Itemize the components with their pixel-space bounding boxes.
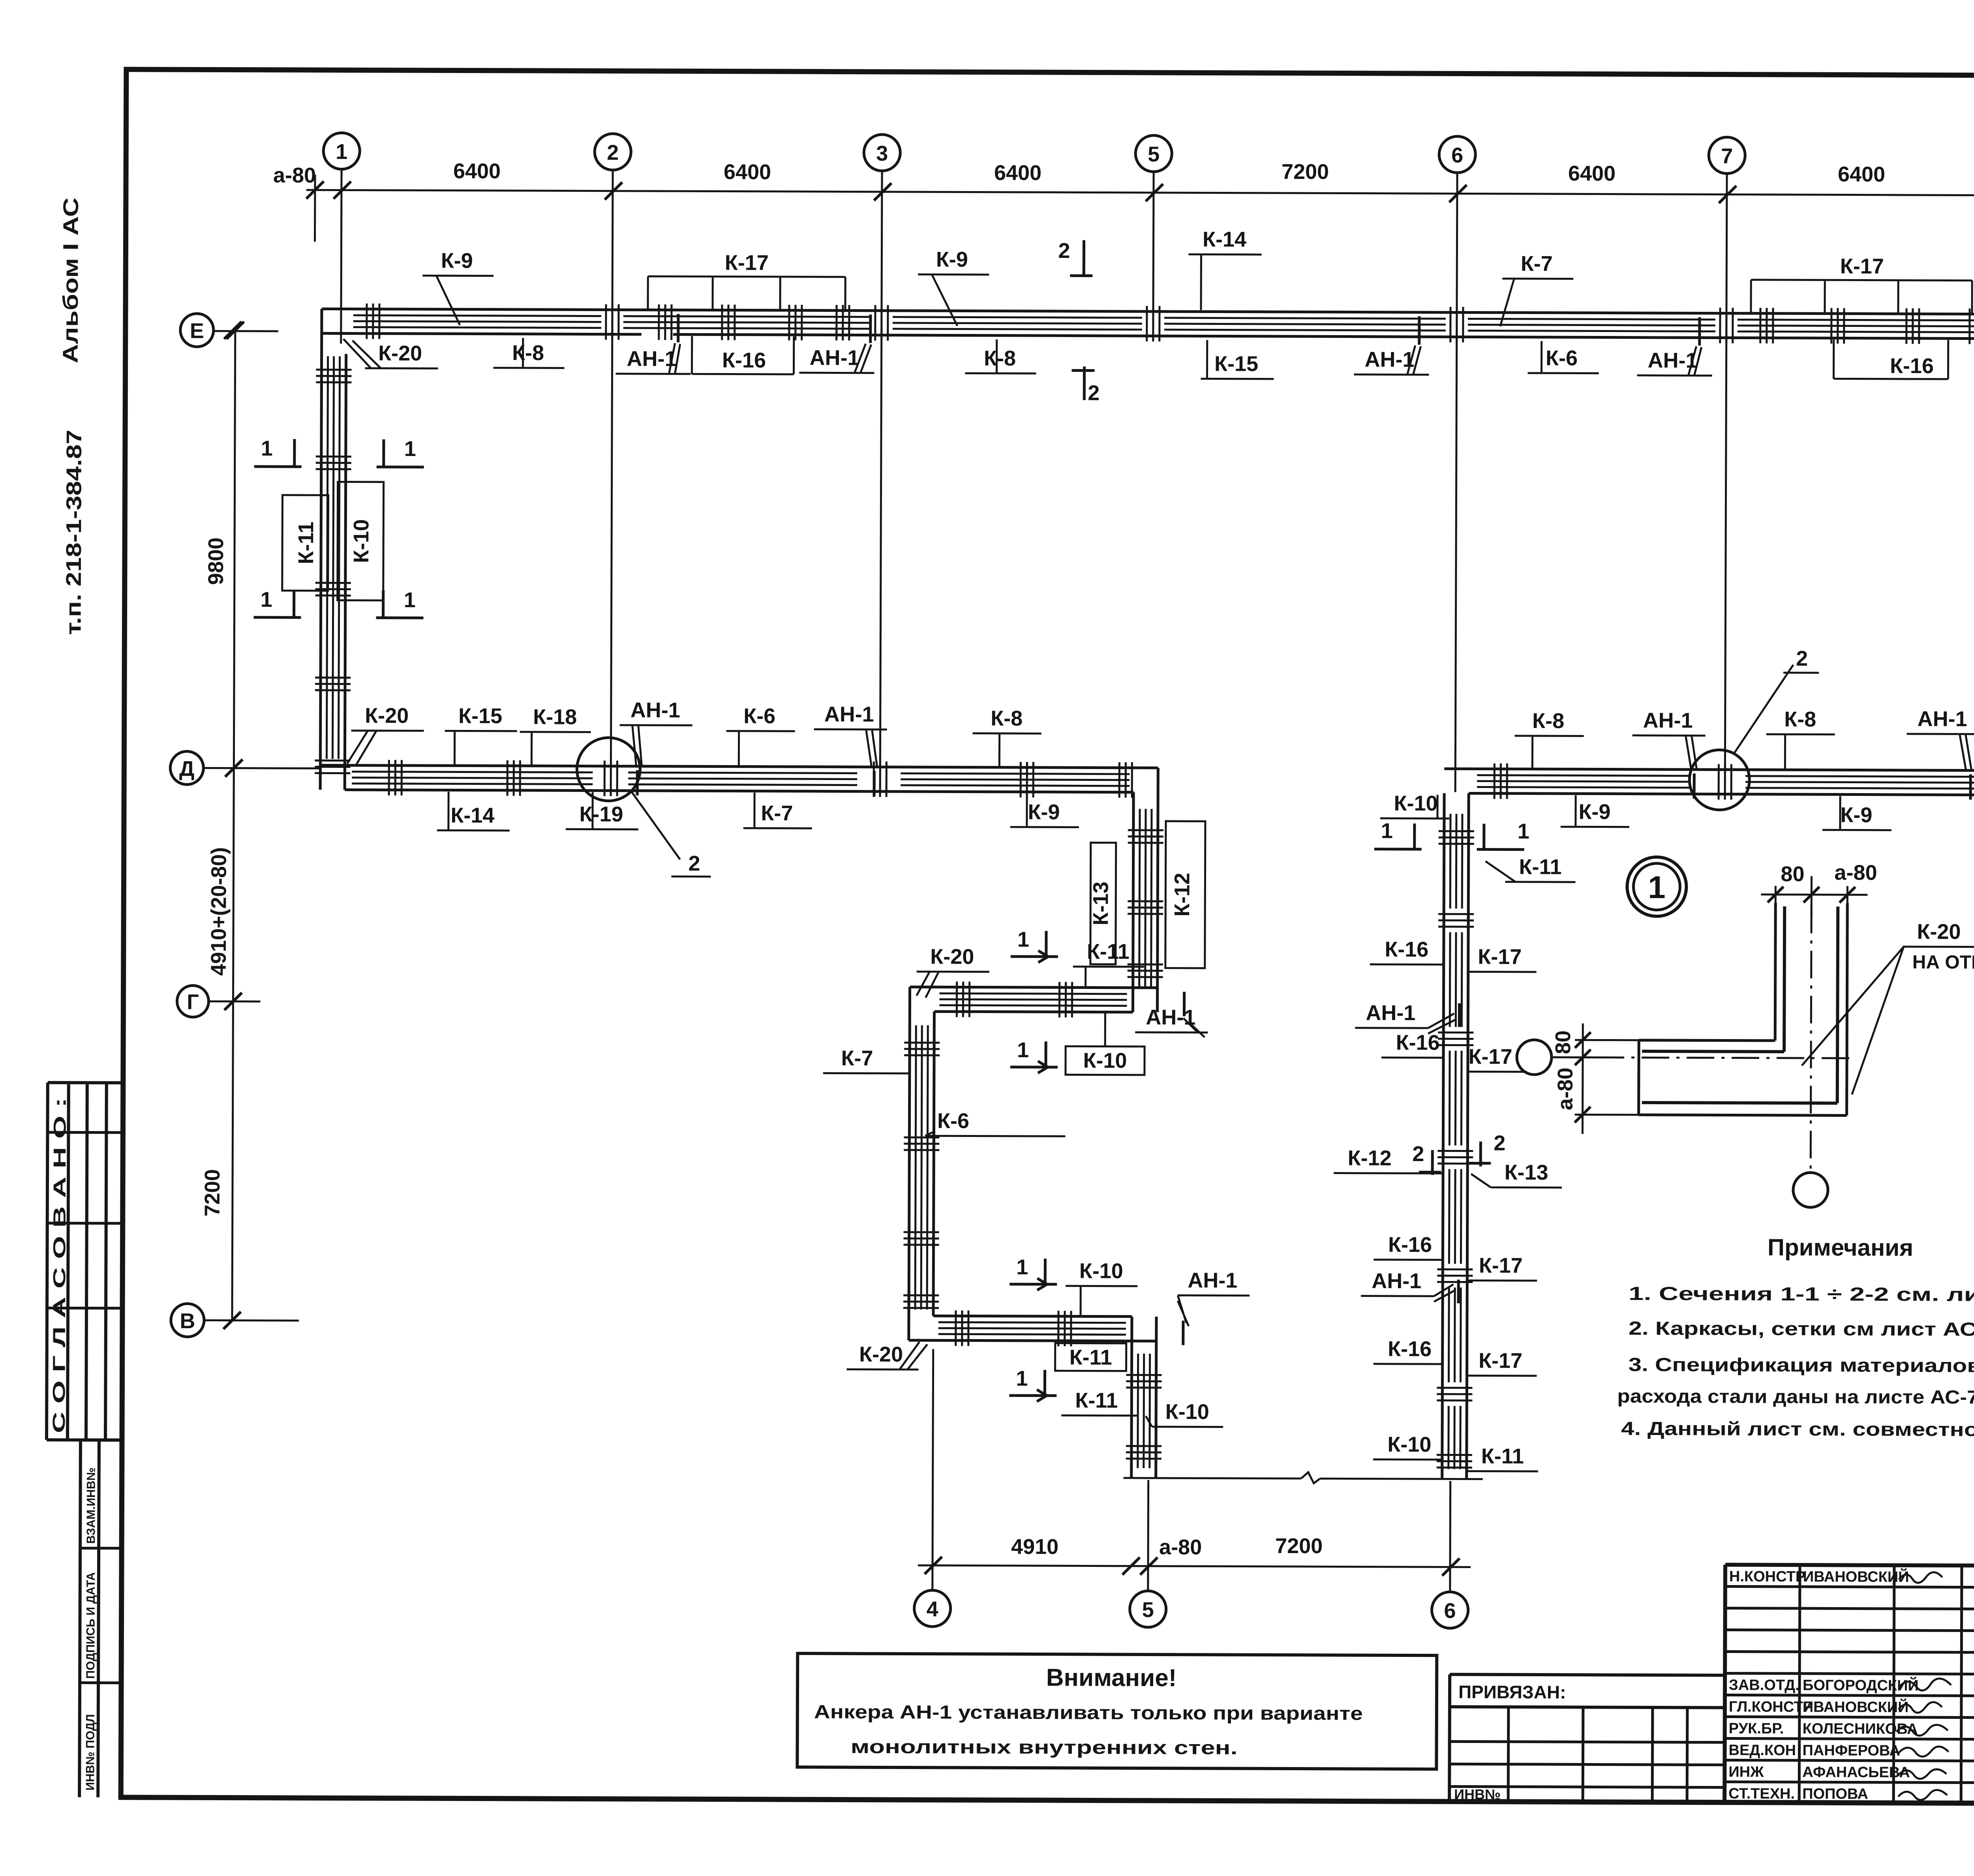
svg-text:К-17: К-17 (1479, 1254, 1523, 1278)
svg-text:2: 2 (688, 852, 700, 875)
svg-text:80: 80 (1551, 1030, 1575, 1054)
svg-text:5: 5 (1148, 143, 1160, 166)
stamp box ИНВ/ПОДПИСЬ (79, 1440, 122, 1797)
svg-text:АН-1: АН-1 (1146, 1006, 1195, 1029)
wall block jog top faces (910, 987, 1157, 1012)
svg-text:1: 1 (404, 437, 416, 461)
detail 1 centerline horizontal (1552, 1057, 1855, 1058)
svg-text:2. Каркасы, сетки см лист: 2. Каркасы, сетки см лист АС-42; АС-43. (1629, 1318, 1974, 1341)
svg-text:а-80: а-80 (1554, 1067, 1577, 1110)
row circle Г (177, 985, 208, 1017)
svg-text:1: 1 (1518, 820, 1529, 843)
anchor marks АН-1 (636, 314, 1972, 1348)
wall block B left faces (909, 987, 934, 1340)
svg-text:ИНВ№: ИНВ№ (1454, 1786, 1501, 1802)
svg-text:К-17: К-17 (1840, 254, 1884, 278)
svg-text:Г: Г (187, 990, 199, 1014)
svg-text:К-20: К-20 (365, 704, 409, 728)
grid circle 5 bottom (1130, 1591, 1166, 1627)
svg-text:К-12: К-12 (1170, 873, 1194, 917)
svg-text:К-12: К-12 (1348, 1146, 1392, 1170)
svg-text:2: 2 (1796, 647, 1808, 670)
leader to label 2 right (1734, 665, 1819, 754)
svg-text:К-7: К-7 (841, 1046, 873, 1070)
svg-text:2: 2 (1412, 1142, 1424, 1166)
grid circle 5 (1135, 135, 1172, 172)
svg-text:АН-1: АН-1 (1188, 1268, 1237, 1292)
signature table grid (1724, 1565, 1974, 1803)
svg-text:АН-1: АН-1 (824, 702, 874, 726)
svg-text:К-6: К-6 (937, 1109, 969, 1133)
svg-text:Альбом I АС: Альбом I АС (59, 197, 83, 363)
bottom dimension line (918, 1565, 1471, 1567)
wall row Д right rebar ticks (1494, 764, 1507, 799)
axis line 6 (1450, 173, 1457, 1592)
svg-text:1: 1 (261, 588, 272, 612)
svg-text:1: 1 (261, 437, 273, 460)
svg-text:К-7: К-7 (761, 801, 793, 825)
svg-text:К-13: К-13 (1505, 1161, 1548, 1184)
svg-text:4. Данный лист см. совмест: 4. Данный лист см. совместно с листом Ае… (1621, 1418, 1974, 1441)
svg-text:К-16: К-16 (722, 349, 766, 372)
wall row Д left rebar ticks (389, 760, 402, 795)
grid circle 3 (864, 135, 900, 171)
detail 1 axis circle left (1517, 1040, 1552, 1075)
svg-text:4: 4 (927, 1597, 938, 1621)
row circle Д (170, 751, 203, 784)
svg-text:К-10: К-10 (1165, 1400, 1209, 1424)
svg-text:К-17: К-17 (725, 251, 769, 275)
signature squiggles (1896, 1572, 1951, 1800)
grid circle 4 bottom (914, 1590, 951, 1626)
detail 1 axis circle bottom (1793, 1172, 1828, 1207)
wall row Е rebar lines (353, 315, 1974, 333)
label К-10 block a (1066, 1046, 1145, 1075)
svg-text:7200: 7200 (1282, 160, 1329, 184)
svg-text:К-20: К-20 (378, 341, 422, 365)
svg-text:К-9: К-9 (936, 248, 968, 271)
wall column5 lower stub faces (1131, 1341, 1156, 1478)
dimension ticks top (306, 181, 1974, 205)
svg-text:СТ.ТЕХН.: СТ.ТЕХН. (1728, 1786, 1795, 1803)
grid circle 1 (323, 133, 360, 169)
svg-text:К-11: К-11 (1075, 1388, 1118, 1412)
grid circle 7 (1709, 137, 1745, 173)
svg-text:80: 80 (1781, 862, 1804, 886)
svg-text:1: 1 (336, 140, 347, 163)
svg-text:ПАНФЕРОВА: ПАНФЕРОВА (1802, 1742, 1900, 1759)
svg-text:АФАНАСЬЕВА: АФАНАСЬЕВА (1802, 1764, 1910, 1781)
svg-text:К-10: К-10 (349, 519, 373, 563)
wall left rebar ticks (316, 370, 351, 382)
Внимание warning box (797, 1653, 1437, 1769)
svg-text:Анкера АН-1 устанавливать: Анкера АН-1 устанавливать только при вар… (814, 1702, 1363, 1724)
svg-text:АН-1: АН-1 (1365, 348, 1415, 371)
svg-text:3. Спецификация материалов и: 3. Спецификация материалов и ведомость (1629, 1354, 1974, 1377)
svg-text:К-20: К-20 (1917, 920, 1961, 944)
wall row Д left faces (320, 765, 1158, 792)
svg-text:ЗАВ.ОТД.: ЗАВ.ОТД. (1729, 1677, 1799, 1694)
extension line a-80 left (314, 174, 316, 242)
wall row Д right rebar lines (1477, 775, 1974, 790)
svg-text:К-7: К-7 (1521, 252, 1553, 276)
wall block B bottom faces (909, 1316, 1156, 1341)
svg-text:ГЛ.КОНСТР: ГЛ.КОНСТР (1729, 1699, 1813, 1716)
svg-text:К-8: К-8 (991, 707, 1023, 730)
svg-text:1: 1 (1017, 1038, 1029, 1062)
wall block B left rebar (915, 1025, 928, 1309)
axis line 1 (341, 169, 342, 344)
svg-text:2: 2 (1494, 1131, 1505, 1155)
grid circle 2 (595, 134, 631, 170)
wall column5 upper stub faces (1133, 768, 1158, 988)
svg-text:К-10: К-10 (1394, 792, 1437, 815)
svg-text:АН-1: АН-1 (630, 698, 680, 722)
row circle Е (180, 313, 214, 347)
wall row Е faces (322, 309, 1974, 340)
row axis Г stub (208, 1000, 260, 1002)
svg-text:К-15: К-15 (458, 704, 502, 728)
svg-text:ПОДПИСЬ И ДАТА: ПОДПИСЬ И ДАТА (84, 1572, 98, 1679)
svg-text:2: 2 (1088, 381, 1100, 405)
axis line 4 bottom (933, 1349, 933, 1590)
svg-text:ВЗАМ.ИНВ№: ВЗАМ.ИНВ№ (84, 1467, 98, 1544)
svg-text:К-20: К-20 (930, 945, 974, 968)
svg-text:7200: 7200 (1275, 1534, 1323, 1558)
svg-text:АН-1: АН-1 (1372, 1269, 1421, 1293)
detail 1 left dim line (1574, 1023, 1642, 1134)
svg-text:К-11: К-11 (294, 522, 318, 564)
svg-text:АН-1: АН-1 (1366, 1001, 1415, 1025)
svg-text:6: 6 (1444, 1599, 1456, 1623)
svg-text:К-16: К-16 (1396, 1031, 1440, 1054)
svg-text:К-11: К-11 (1481, 1445, 1524, 1468)
left dimension line (232, 330, 235, 1321)
svg-text:АН-1: АН-1 (627, 347, 676, 371)
svg-text:К-11: К-11 (1519, 855, 1561, 879)
svg-text:ИНВ№ ПОДЛ: ИНВ№ ПОДЛ (84, 1714, 97, 1791)
svg-text:3: 3 (876, 142, 888, 165)
ground line under block (1124, 1472, 1483, 1484)
svg-text:1: 1 (1648, 870, 1666, 905)
axis line 2 (611, 170, 613, 767)
wall column5 lower stub rebar (1138, 1354, 1150, 1468)
svg-text:Примечания: Примечания (1768, 1234, 1913, 1261)
svg-text:С О Г Л А С О В А Н О :: С О Г Л А С О В А Н О : (49, 1097, 70, 1433)
svg-text:ВЕД.КОН: ВЕД.КОН (1728, 1742, 1796, 1759)
label К-11 box left wall (282, 495, 328, 591)
svg-text:а-80: а-80 (1834, 861, 1877, 884)
svg-text:т.п. 218-1-384.87: т.п. 218-1-384.87 (62, 430, 86, 635)
svg-text:НА ОТМ. 0.500: НА ОТМ. 0.500 (1912, 952, 1974, 973)
svg-text:1: 1 (1381, 819, 1393, 843)
svg-text:ИВАНОВСКИЙ: ИВАНОВСКИЙ (1803, 1567, 1909, 1585)
svg-text:К-14: К-14 (450, 803, 494, 827)
detail 1 centerline vertical (1811, 906, 1811, 1172)
dimension ticks bottom (925, 1557, 1460, 1576)
svg-text:К-15: К-15 (1214, 352, 1258, 375)
svg-text:6400: 6400 (1568, 161, 1616, 185)
row axis В stub (204, 1319, 299, 1322)
svg-text:1: 1 (1016, 1367, 1028, 1390)
svg-text:К-6: К-6 (743, 704, 775, 728)
svg-text:6400: 6400 (724, 160, 771, 184)
svg-text:К-6: К-6 (1546, 346, 1578, 370)
svg-text:ИНЖ: ИНЖ (1728, 1764, 1764, 1780)
svg-text:6: 6 (1451, 143, 1463, 167)
ПРИВЯЗАН table (1449, 1674, 1725, 1802)
label К-11 block b (1055, 1343, 1126, 1371)
svg-text:К-8: К-8 (984, 347, 1016, 370)
label К-10 box left wall (338, 482, 384, 600)
svg-text:ПРИВЯЗАН:: ПРИВЯЗАН: (1458, 1681, 1566, 1702)
svg-text:Внимание!: Внимание! (1046, 1664, 1177, 1692)
svg-text:К-16: К-16 (1890, 354, 1934, 378)
svg-text:К-11: К-11 (1070, 1345, 1112, 1369)
callout circle detail 2 on row Д right (1689, 750, 1749, 810)
svg-text:К-17: К-17 (1478, 945, 1522, 969)
svg-text:1. Сечения 1-1 ÷ 2-2 см.: 1. Сечения 1-1 ÷ 2-2 см. лист АС-18 (1629, 1283, 1974, 1306)
svg-text:К-9: К-9 (1840, 803, 1872, 827)
svg-text:В: В (180, 1309, 195, 1333)
svg-text:6400: 6400 (994, 161, 1041, 185)
wall column5 upper stub rebar (1139, 809, 1152, 987)
detail 1 title circle (1627, 857, 1686, 916)
svg-text:РУК.БР.: РУК.БР. (1729, 1720, 1784, 1737)
svg-text:6400: 6400 (453, 159, 501, 183)
leader to label 2 (631, 792, 711, 877)
svg-text:К-9: К-9 (1578, 800, 1610, 824)
top dimension line (306, 190, 1974, 196)
svg-text:4910: 4910 (1011, 1535, 1058, 1559)
row circle В (171, 1304, 204, 1337)
wall block B bottom rebar (938, 1322, 1126, 1334)
svg-text:5: 5 (1142, 1598, 1154, 1622)
title block outer (1724, 1565, 1974, 1805)
grid circle 6 (1439, 136, 1475, 173)
svg-text:монолитных внутренних сте: монолитных внутренних стен. (850, 1737, 1237, 1759)
wall column6 faces (1442, 793, 1469, 1479)
svg-text:1: 1 (1016, 1255, 1028, 1279)
svg-text:ПОПОВА: ПОПОВА (1802, 1786, 1868, 1803)
svg-text:К-8: К-8 (1784, 707, 1816, 731)
wall row Д left rebar lines (352, 772, 1130, 786)
svg-text:ИВАНОВСКИЙ: ИВАНОВСКИЙ (1803, 1698, 1909, 1716)
wall left rebar lines (326, 356, 340, 759)
svg-text:К-10: К-10 (1079, 1259, 1123, 1283)
svg-text:К-13: К-13 (1089, 882, 1113, 925)
detail 1 corner rebar (1642, 906, 1838, 1103)
axis line 5 (1148, 172, 1154, 1591)
detail 1 wall corner faces (1639, 902, 1848, 1116)
svg-text:К-19: К-19 (579, 802, 623, 826)
wall left column1 faces (320, 309, 346, 790)
svg-text:К-20: К-20 (859, 1343, 903, 1366)
svg-text:К-10: К-10 (1083, 1049, 1127, 1072)
svg-text:2: 2 (1058, 239, 1070, 263)
wall row Д right faces (1444, 769, 1974, 796)
svg-text:4910+(20-80): 4910+(20-80) (207, 847, 231, 976)
svg-text:К-8: К-8 (1532, 709, 1564, 733)
svg-text:9800: 9800 (204, 537, 228, 585)
svg-text:К-11: К-11 (1087, 940, 1130, 963)
svg-text:К-10: К-10 (1387, 1433, 1431, 1456)
label К-13 box col5 stub (1090, 842, 1116, 964)
callout circle detail 2 on row Д left (577, 737, 640, 801)
wall block jog rebar (939, 993, 1127, 1006)
svg-text:К-16: К-16 (1385, 938, 1428, 961)
svg-text:К-8: К-8 (512, 341, 544, 365)
svg-text:К-16: К-16 (1388, 1337, 1432, 1361)
svg-text:а-80: а-80 (273, 163, 316, 187)
row axis Е stub (214, 330, 278, 332)
axis line 3 (880, 171, 882, 768)
svg-text:а-80: а-80 (1159, 1535, 1202, 1559)
row axis Д stub (203, 767, 320, 769)
svg-text:расхода стали даны на лист: расхода стали даны на листе АС-7. (1617, 1386, 1974, 1408)
svg-text:Д: Д (179, 757, 195, 780)
label К-12 box col5 stub (1165, 821, 1205, 968)
svg-text:АН-1: АН-1 (1643, 709, 1693, 732)
svg-text:К-9: К-9 (1028, 800, 1060, 824)
svg-text:К-17: К-17 (1468, 1045, 1512, 1068)
svg-text:К-9: К-9 (441, 249, 473, 272)
grid circle 6 bottom (1432, 1592, 1468, 1628)
svg-text:7: 7 (1721, 144, 1733, 168)
svg-text:АН-1: АН-1 (1918, 707, 1967, 731)
wall column6 rebar lines (1449, 814, 1462, 1469)
svg-text:7200: 7200 (201, 1169, 224, 1216)
svg-text:Е: Е (190, 319, 204, 343)
svg-text:АН-1: АН-1 (810, 346, 859, 370)
wall column6 rebar ticks (1439, 831, 1474, 844)
svg-text:6400: 6400 (1838, 162, 1885, 186)
axis line 7 (1725, 174, 1727, 771)
svg-text:К-17: К-17 (1479, 1349, 1522, 1373)
svg-text:Н.КОНСТР: Н.КОНСТР (1729, 1568, 1805, 1585)
svg-text:1: 1 (1017, 928, 1029, 951)
detail 1 top dim line (1761, 876, 1867, 938)
left dim ticks (223, 322, 244, 1329)
svg-text:2: 2 (607, 141, 619, 165)
svg-text:К-18: К-18 (533, 705, 577, 729)
svg-text:1: 1 (404, 588, 416, 612)
svg-text:К-14: К-14 (1203, 227, 1246, 251)
wall row Е rebar ticks (367, 304, 379, 339)
stamp box СОГЛАСОВАНО (47, 1082, 123, 1440)
svg-text:К-16: К-16 (1388, 1233, 1432, 1257)
